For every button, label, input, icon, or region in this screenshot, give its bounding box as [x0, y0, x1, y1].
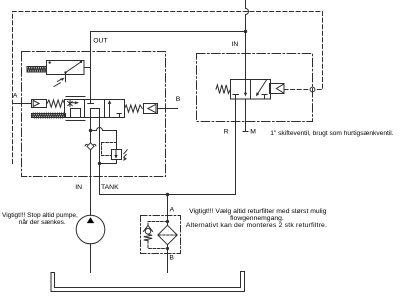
wire: compensator to OUT riser — [84, 67, 91, 69]
svg-text:R: R — [224, 128, 229, 135]
pilot valve enclosure (dash-dot box, right) — [197, 54, 313, 122]
svg-text:B: B — [176, 96, 181, 103]
wire: top link OUT to IN riser — [91, 31, 246, 33]
filter bypass check valve with spring — [143, 222, 167, 249]
spring (left of main valve) — [47, 100, 65, 107]
relief valve RV1 — [102, 143, 128, 162]
check valve CV1 (port A) — [32, 100, 47, 108]
wire: relief branch with hop over TANK line — [91, 128, 117, 150]
filter F1 (diamond with dashed element) — [158, 225, 177, 244]
node: filter inlet junction — [166, 220, 169, 223]
svg-text:A: A — [13, 92, 18, 99]
wire: IN riser with hop over dashed boundary — [246, 0, 249, 80]
V1 cell 1: variable orifice with arrow — [68, 100, 81, 117]
pump P1 — [76, 215, 105, 244]
main control valve V1 envelope — [65, 100, 125, 118]
quick coupling on IN line — [85, 143, 96, 150]
wire: filter branch drop — [167, 195, 169, 273]
svg-text:Alternativt kan der monteres 2: Alternativt kan der monteres 2 stk retur… — [186, 222, 327, 229]
V1 cell 2: blocked OUT port and P-T bypass — [88, 100, 100, 118]
node: junction TANK run / filter branch — [166, 193, 169, 196]
solenoid pilot valve V2 envelope — [231, 80, 271, 100]
V2 right cell: diagonal flow arrow and blocked port — [256, 80, 267, 99]
node: junction relief outlet / TANK line — [98, 162, 101, 165]
wire: R port drop — [235, 99, 237, 195]
filter enclosure (dash-dot box, bottom) — [141, 216, 181, 254]
V1 cell 3: up-flow arrow and blocked tank port — [108, 100, 122, 117]
node: filter outlet junction — [166, 247, 169, 250]
system dashed boundary — [13, 12, 323, 164]
wire: A port line — [13, 103, 32, 105]
node: junction IN line / relief branch — [89, 129, 92, 132]
check valve CV2 (port B) — [144, 104, 158, 114]
wire: B port line — [158, 108, 178, 110]
wire: pump suction into tank — [90, 244, 92, 273]
wire: relief outlet to TANK line — [100, 160, 117, 164]
node: junction top link / IN riser — [244, 30, 247, 33]
svg-text:TANK: TANK — [101, 184, 119, 191]
proportional bars above/below V1 left cell — [66, 97, 85, 121]
svg-text:IN: IN — [232, 41, 239, 48]
wire: TANK line below V1 — [100, 118, 236, 195]
solenoid actuator of V2 — [270, 84, 285, 94]
wire: IN line below V1 — [90, 118, 92, 216]
svg-text:B: B — [169, 255, 174, 262]
node: pilot port circle on valve box edge — [310, 87, 315, 92]
spring (left of V2) — [216, 85, 231, 94]
manifold enclosure (dash-dot box, left) — [22, 52, 166, 177]
V2 left cell: IN to M pass with blocked R — [233, 80, 247, 100]
proportional control arrow (lightning) at compensator — [54, 78, 65, 87]
svg-text:M: M — [250, 128, 256, 135]
pilot compensator U2 (top box) — [47, 61, 85, 82]
svg-text:når der sænkes.: når der sænkes. — [19, 218, 66, 226]
wire: OUT riser — [90, 32, 92, 100]
proportional solenoid coil (hatched bar, left) — [32, 114, 66, 118]
svg-text:1" skifteventil, brugt som hur: 1" skifteventil, brugt som hurtigsænkven… — [270, 130, 393, 137]
spring of pilot compensator (hatched bar) — [27, 67, 47, 73]
wire: M port stub (plugged) — [243, 99, 248, 132]
spring (right of main valve) — [125, 105, 143, 112]
tank / reservoir — [51, 272, 245, 292]
svg-text:A: A — [170, 207, 175, 214]
pilot line (dashed) from solenoid to port node — [284, 89, 310, 91]
svg-text:OUT: OUT — [93, 37, 107, 44]
svg-text:IN: IN — [75, 184, 82, 191]
